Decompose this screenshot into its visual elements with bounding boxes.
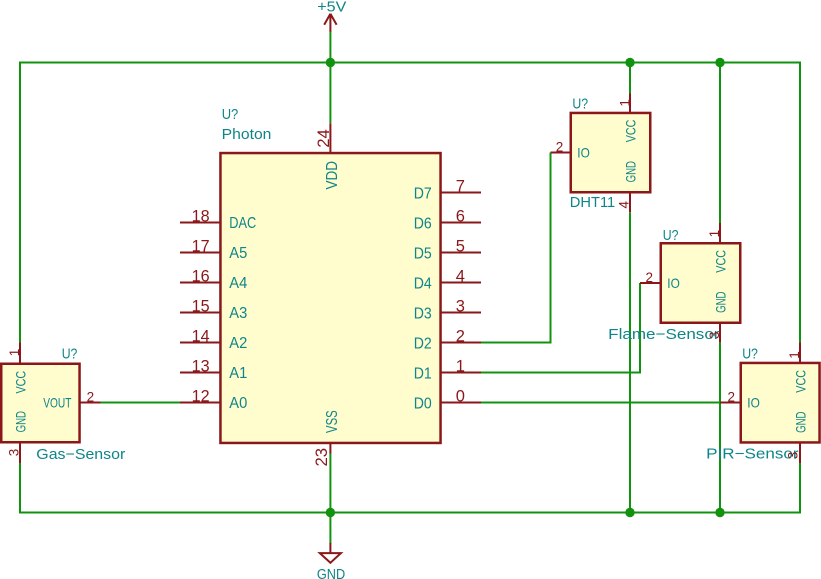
svg-text:A4: A4 xyxy=(229,275,247,292)
svg-text:A0: A0 xyxy=(229,395,247,412)
svg-text:6: 6 xyxy=(456,208,465,226)
svg-text:D6: D6 xyxy=(414,215,432,232)
svg-text:A1: A1 xyxy=(229,365,247,382)
svg-text:A2: A2 xyxy=(229,335,247,352)
svg-text:GND: GND xyxy=(712,292,728,313)
svg-text:4: 4 xyxy=(456,268,465,286)
svg-text:1: 1 xyxy=(618,99,633,107)
svg-text:U?: U? xyxy=(663,227,679,244)
svg-text:12: 12 xyxy=(192,388,210,406)
svg-text:3: 3 xyxy=(786,452,801,460)
svg-text:IO: IO xyxy=(747,395,760,411)
svg-text:A3: A3 xyxy=(229,305,247,322)
svg-text:14: 14 xyxy=(192,328,210,346)
svg-text:IO: IO xyxy=(667,275,680,291)
svg-text:2: 2 xyxy=(727,389,735,404)
svg-text:IO: IO xyxy=(577,145,590,161)
svg-text:DAC: DAC xyxy=(229,215,256,232)
svg-text:VSS: VSS xyxy=(324,410,341,433)
svg-text:3: 3 xyxy=(456,298,465,316)
svg-text:D3: D3 xyxy=(414,305,432,322)
svg-text:U?: U? xyxy=(742,346,758,363)
svg-text:4: 4 xyxy=(616,201,631,209)
svg-text:VDD: VDD xyxy=(324,161,341,190)
svg-text:VCC: VCC xyxy=(792,370,808,393)
svg-text:3: 3 xyxy=(707,331,722,339)
svg-text:2: 2 xyxy=(556,140,564,155)
svg-text:GND: GND xyxy=(12,411,28,432)
svg-text:2: 2 xyxy=(87,389,95,404)
svg-text:U?: U? xyxy=(62,345,78,362)
svg-text:1: 1 xyxy=(787,351,802,359)
svg-text:+5V: +5V xyxy=(317,0,346,16)
svg-text:Gas−Sensor: Gas−Sensor xyxy=(36,446,125,463)
svg-text:GND: GND xyxy=(317,566,345,579)
svg-text:2: 2 xyxy=(645,270,653,285)
svg-text:18: 18 xyxy=(192,208,210,226)
svg-text:23: 23 xyxy=(313,448,331,467)
svg-text:A5: A5 xyxy=(229,245,247,262)
svg-text:VCC: VCC xyxy=(622,120,638,143)
svg-text:5: 5 xyxy=(456,238,465,256)
svg-text:VOUT: VOUT xyxy=(43,395,72,411)
svg-text:DHT11: DHT11 xyxy=(570,194,615,211)
svg-text:VCC: VCC xyxy=(712,250,728,273)
svg-text:D5: D5 xyxy=(414,245,432,262)
svg-text:16: 16 xyxy=(192,268,210,286)
svg-text:U?: U? xyxy=(222,106,239,123)
svg-text:17: 17 xyxy=(192,238,210,256)
svg-text:VCC: VCC xyxy=(12,371,28,394)
svg-text:1: 1 xyxy=(7,349,22,357)
svg-text:1: 1 xyxy=(707,230,722,238)
svg-text:D7: D7 xyxy=(414,185,432,202)
svg-text:D0: D0 xyxy=(414,395,432,412)
svg-text:15: 15 xyxy=(192,298,210,316)
svg-text:D4: D4 xyxy=(414,275,432,292)
svg-text:Photon: Photon xyxy=(222,126,272,143)
svg-text:Flame−Sensor: Flame−Sensor xyxy=(608,326,719,343)
svg-text:D2: D2 xyxy=(414,335,432,352)
svg-text:2: 2 xyxy=(456,328,465,346)
svg-text:GND: GND xyxy=(792,412,808,433)
svg-text:3: 3 xyxy=(6,449,21,457)
svg-text:1: 1 xyxy=(456,358,465,376)
svg-text:GND: GND xyxy=(622,161,638,182)
svg-text:D1: D1 xyxy=(414,365,432,382)
svg-text:13: 13 xyxy=(192,358,210,376)
svg-text:7: 7 xyxy=(456,178,465,196)
svg-text:24: 24 xyxy=(315,129,333,148)
svg-text:0: 0 xyxy=(456,388,465,406)
svg-text:U?: U? xyxy=(572,96,588,113)
